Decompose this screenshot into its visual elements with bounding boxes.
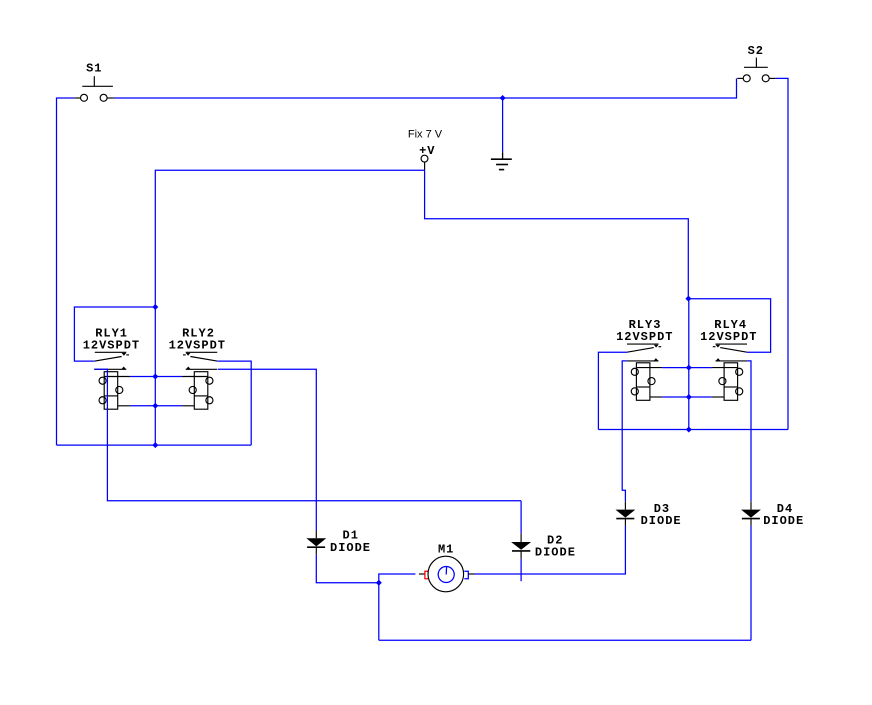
wire W24b: RLY3 coil bottom pin to center	[662, 396, 689, 398]
wire W5: S2 right lead down right rail	[776, 78, 788, 429]
node junction left relay feed	[152, 304, 158, 310]
wire: RLY4 coil bottom pin to center	[689, 396, 712, 398]
wire W13: bottom-left rail	[57, 444, 252, 446]
relay RLY2	[182, 352, 217, 409]
node junction bottom-left rail	[152, 442, 158, 448]
motor M1	[419, 556, 475, 592]
wire: D3 anode lead jog up to RLY3 NO	[622, 361, 627, 501]
node junction on top rail (ground tap)	[500, 95, 506, 101]
wire W24a: RLY3 coil top pin to center	[662, 367, 689, 369]
wire: D2 cathode lead	[520, 559, 522, 581]
node junction right coil bottom pins	[686, 394, 692, 400]
wire: D2 anode lead	[520, 501, 522, 534]
wire: RLY4 coil top pin to center	[689, 367, 712, 369]
diode D2	[511, 534, 531, 559]
svg-text:+V: +V	[419, 144, 435, 158]
svg-text:12VSPDT: 12VSPDT	[700, 330, 757, 344]
relay RLY4	[712, 344, 747, 400]
wire W12: RLY1 coil bottom pin to center node	[130, 405, 155, 407]
node junction motor left branch	[376, 580, 382, 586]
wire: D4 cathode down to bottom rail	[750, 526, 752, 640]
wire W7: +V to left relay feed	[155, 170, 424, 307]
svg-text:S2: S2	[748, 44, 764, 58]
svg-text:12VSPDT: 12VSPDT	[616, 330, 673, 344]
wire: RLY2 coil top pin to center node	[155, 376, 182, 378]
wire W26: RLY4 NO contact down to D4	[747, 361, 751, 501]
node junction coil bottom pins	[152, 403, 158, 409]
wire W1: S1 left lead to left rail corner	[57, 98, 75, 445]
wire W20: motor right wire to D3 bottom	[475, 526, 626, 574]
svg-text:DIODE: DIODE	[641, 514, 682, 528]
relay RLY1	[95, 352, 130, 409]
wire W10: left center vertical	[154, 307, 156, 445]
wire W23: right center vertical	[688, 299, 690, 430]
switch S2	[737, 58, 775, 82]
svg-text:DIODE: DIODE	[535, 546, 576, 560]
svg-text:DIODE: DIODE	[763, 514, 804, 528]
wire W15: RLY1 NO contact to D2	[94, 369, 521, 501]
svg-text:Fix 7 V: Fix 7 V	[408, 128, 443, 140]
node junction relay bottom rail	[686, 427, 692, 433]
wire W11: RLY1 coil top pin to center node	[130, 376, 155, 378]
wire W17: RLY2 NO contact to D1	[218, 369, 316, 530]
node junction right relay feed	[685, 296, 691, 302]
node junction right coil top pins	[686, 365, 692, 371]
wire W8: +V to right relay feed	[425, 170, 689, 299]
relay RLY3	[627, 344, 662, 400]
svg-text:12VSPDT: 12VSPDT	[83, 338, 140, 352]
wire W18: motor left wire and drop	[379, 574, 416, 640]
wire W14: RLY2 common to bottom-left rail	[217, 361, 251, 445]
node junction coil top pins	[152, 374, 158, 380]
wire: D1 cathode to motor node	[316, 554, 379, 583]
wire: RLY2 coil bottom pin to center node	[155, 405, 182, 407]
svg-text:M1: M1	[438, 542, 454, 556]
wire W22: relay block bottom rail	[598, 429, 788, 431]
wire W19: bottom rail	[379, 639, 751, 641]
svg-text:S1: S1	[86, 62, 102, 76]
svg-text:12VSPDT: 12VSPDT	[169, 338, 226, 352]
diode D4	[741, 501, 761, 526]
wire W21: RLY3 common feed from bottom rail	[598, 352, 627, 429]
diode D3	[616, 501, 636, 526]
switch S1	[74, 76, 114, 101]
power source +V (Fix 7 V)	[421, 155, 428, 162]
wire W9: feed to RLY1 common	[74, 307, 155, 361]
wire W3: top rail from S1 right to S2 left riser	[114, 78, 737, 98]
diode D1	[306, 530, 326, 554]
wire W25: feed to RLY4 common	[688, 299, 770, 353]
ground	[491, 152, 512, 169]
svg-text:DIODE: DIODE	[330, 541, 371, 555]
wire W6: ground stem	[502, 98, 504, 152]
